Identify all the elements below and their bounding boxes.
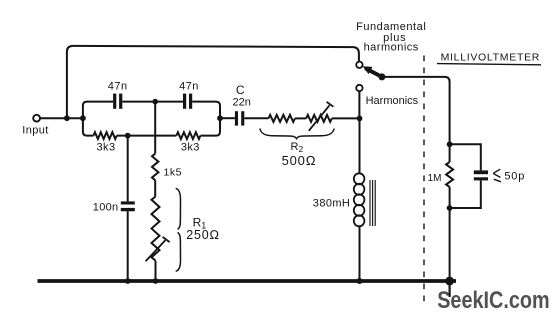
svg-text:380mH: 380mH bbox=[313, 197, 350, 209]
svg-text:50p: 50p bbox=[504, 171, 525, 183]
svg-text:1k5: 1k5 bbox=[164, 166, 182, 178]
svg-text:250Ω: 250Ω bbox=[186, 228, 220, 242]
svg-text:Harmonics: Harmonics bbox=[366, 95, 419, 107]
svg-text:C: C bbox=[236, 83, 245, 97]
svg-text:3k3: 3k3 bbox=[181, 142, 200, 154]
svg-text:3k3: 3k3 bbox=[97, 142, 116, 154]
svg-text:47n: 47n bbox=[108, 80, 128, 92]
svg-text:Input: Input bbox=[22, 125, 48, 137]
svg-text:1M: 1M bbox=[428, 173, 442, 184]
svg-text:MILLIVOLTMETER: MILLIVOLTMETER bbox=[441, 51, 540, 63]
svg-text:100n: 100n bbox=[93, 202, 119, 214]
svg-text:harmonics: harmonics bbox=[364, 42, 419, 54]
svg-text:Fundamental: Fundamental bbox=[356, 21, 426, 33]
svg-text:500Ω: 500Ω bbox=[282, 153, 317, 168]
svg-text:22n: 22n bbox=[233, 97, 251, 109]
svg-text:47n: 47n bbox=[179, 80, 199, 92]
svg-text:SeekIC.com: SeekIC.com bbox=[437, 287, 550, 314]
